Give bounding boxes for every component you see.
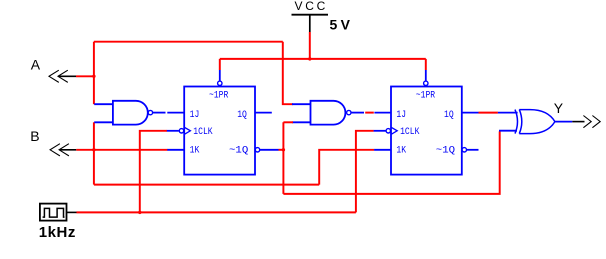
- wire VCC rail horizontal: [220, 58, 426, 60]
- wire clock to U4 CLK: [356, 131, 374, 213]
- svg-text:1J: 1J: [190, 110, 200, 121]
- wire ~1Q bottom horizontal to XOR: [283, 131, 499, 194]
- svg-text:1K: 1K: [190, 145, 200, 156]
- svg-text:1kHz: 1kHz: [39, 224, 76, 241]
- wire ~1Q to U2 input: [283, 121, 293, 123]
- wire clock horizontal: [77, 211, 356, 213]
- wire B bottom horizontal: [94, 184, 319, 186]
- wire ~1Q vertical: [282, 122, 284, 194]
- svg-text:1J: 1J: [396, 110, 406, 121]
- wire B to junction: [76, 149, 94, 151]
- wire U2 output to U4 1J: [365, 112, 374, 114]
- node VCC junction: [308, 57, 311, 60]
- svg-text:~1Q: ~1Q: [436, 145, 455, 156]
- node A junction: [92, 75, 95, 78]
- svg-text:Y: Y: [554, 100, 564, 116]
- port B: [30, 128, 76, 156]
- svg-text:~1Q: ~1Q: [229, 145, 248, 156]
- wire A vertical to U1 input: [93, 42, 95, 104]
- wire B up to U4 1K: [319, 150, 374, 185]
- wire B vertical: [93, 122, 95, 184]
- node U3 ~1Q junction: [282, 148, 285, 151]
- wire U3 ~1Q to junction: [279, 149, 284, 151]
- svg-text:1Q: 1Q: [237, 110, 247, 121]
- svg-text:~1PR: ~1PR: [209, 91, 228, 102]
- power VCC: [292, 0, 354, 32]
- node clock junction: [138, 211, 141, 214]
- svg-text:1Q: 1Q: [444, 110, 454, 121]
- port Y: [554, 100, 600, 128]
- wire U4 1Q to XOR: [479, 112, 498, 114]
- JK flip-flop U3: [167, 70, 279, 175]
- wire A down to U2 input: [283, 42, 293, 104]
- XOR gate U5: [498, 110, 572, 134]
- clock source V1: [39, 204, 77, 242]
- svg-text:VCC: VCC: [295, 0, 329, 13]
- JK flip-flop U4: [374, 70, 479, 175]
- wire A top horizontal: [94, 41, 283, 43]
- wire VCC to U4 PR: [425, 59, 427, 70]
- svg-text:A: A: [31, 56, 41, 72]
- NAND gate U2: [292, 101, 364, 125]
- svg-text:1CLK: 1CLK: [400, 127, 419, 138]
- svg-text:5V: 5V: [330, 16, 354, 32]
- port A: [31, 56, 76, 82]
- node B junction: [92, 148, 95, 151]
- svg-text:1K: 1K: [396, 145, 406, 156]
- wire A to junction: [76, 75, 94, 77]
- svg-text:1CLK: 1CLK: [193, 127, 212, 138]
- svg-text:B: B: [30, 128, 39, 144]
- svg-text:~1PR: ~1PR: [416, 91, 435, 102]
- wire B to U3 1K: [94, 149, 168, 151]
- NAND gate U1: [94, 101, 165, 125]
- wire clock to U3 CLK: [140, 131, 167, 213]
- wire VCC drop to rail: [309, 32, 311, 59]
- wire VCC to U3 PR: [219, 59, 221, 70]
